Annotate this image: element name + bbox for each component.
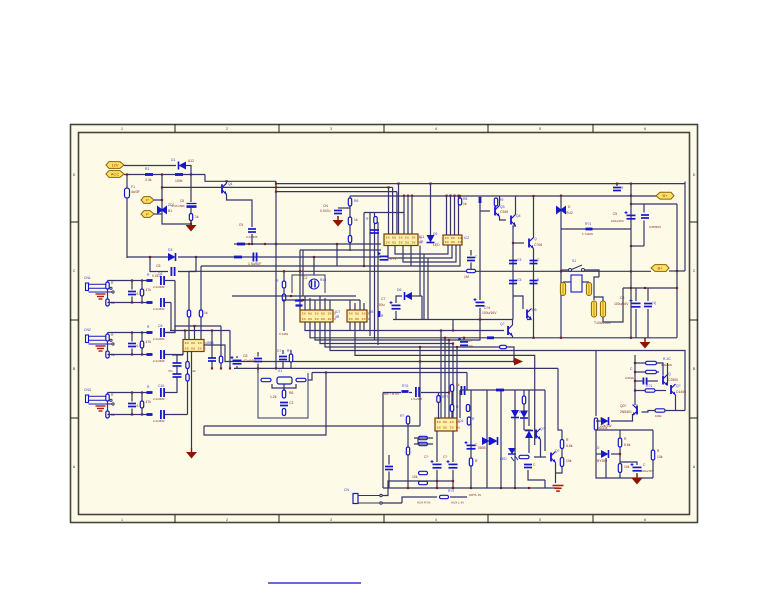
wire x300 drop xyxy=(299,250,301,310)
wire reg h xyxy=(655,390,666,392)
junction xyxy=(325,371,327,373)
wire U5 pin down xyxy=(359,322,361,330)
capacitor C50 xyxy=(643,378,646,385)
wire reg left lower + bottom xyxy=(596,430,653,478)
wire x303 drop xyxy=(302,250,304,296)
diode D10 xyxy=(482,437,490,445)
wire xyxy=(190,208,192,213)
svg-text:5.6k: 5.6k xyxy=(566,444,573,448)
diode D1 xyxy=(179,162,187,170)
svg-text:C5: C5 xyxy=(156,264,160,268)
wire x314 drop xyxy=(313,257,315,275)
resistor R48 xyxy=(419,442,428,445)
wire U1 riser b upper xyxy=(188,271,190,310)
wire C5 branch xyxy=(150,257,168,272)
junction xyxy=(634,389,636,391)
junction xyxy=(211,329,213,331)
wire R16 top xyxy=(283,271,285,281)
diode D19 xyxy=(601,417,609,425)
junction xyxy=(463,337,465,339)
wire U1 pin down a xyxy=(182,352,184,356)
port ACC xyxy=(106,171,124,178)
border zone labels xyxy=(73,127,696,522)
resistor R57 xyxy=(560,458,563,467)
wire y426 b xyxy=(250,425,420,427)
junction xyxy=(616,183,618,185)
junction xyxy=(634,371,636,373)
svg-text:C?: C? xyxy=(277,349,281,353)
wire x230 drop xyxy=(229,331,231,369)
wire xyxy=(451,392,453,404)
resistor ch2b xyxy=(106,351,109,358)
fuse F2 xyxy=(591,301,596,317)
wire bus L5 to port xyxy=(350,195,657,197)
resistor R16b xyxy=(282,294,285,301)
wire riser x449 xyxy=(448,340,450,418)
junction xyxy=(560,337,562,339)
svg-text:Q3: Q3 xyxy=(500,205,505,209)
junction xyxy=(275,367,277,369)
IC U3 xyxy=(384,234,418,246)
wire xyxy=(596,420,601,422)
svg-text:D: D xyxy=(73,173,76,177)
wire xyxy=(141,408,143,415)
ground G1 xyxy=(186,221,197,232)
fuse FB1 xyxy=(560,283,565,296)
svg-text:1.2k: 1.2k xyxy=(270,395,277,399)
wire rail x513 xyxy=(513,226,516,320)
svg-text:5: 5 xyxy=(539,518,541,522)
wire filter out xyxy=(308,373,312,381)
svg-text:2.2u/50F: 2.2u/50F xyxy=(153,359,165,363)
junction xyxy=(456,346,458,348)
svg-text:IC2: IC2 xyxy=(464,236,469,240)
resistor R12 xyxy=(467,269,476,272)
wire riser x445 xyxy=(444,338,446,418)
resistor R42 xyxy=(450,385,453,392)
port ILL xyxy=(141,211,154,218)
svg-text:X1: X1 xyxy=(278,369,282,373)
capacitor C5 xyxy=(171,267,174,276)
wire xyxy=(636,404,638,407)
junction xyxy=(532,195,534,197)
junction xyxy=(452,342,454,344)
wire bus L1 +B xyxy=(205,175,276,182)
wire line j drop xyxy=(466,373,468,391)
wire xyxy=(131,297,133,303)
resistor R50 xyxy=(419,481,428,484)
IC U2 xyxy=(300,310,333,322)
junction xyxy=(257,367,259,369)
junction xyxy=(459,195,461,197)
svg-text:R8: R8 xyxy=(463,197,467,201)
electrolytic capacitor C9 xyxy=(625,211,636,219)
electrolytic capacitor C51 xyxy=(631,463,642,471)
svg-text:LED: LED xyxy=(433,243,440,247)
wire xyxy=(395,311,397,320)
fuse F1 xyxy=(125,188,130,198)
wire rail y497 b xyxy=(450,496,467,498)
wire U3 riser p4 xyxy=(398,184,400,234)
ground G3 main xyxy=(186,448,197,459)
wire x531 up xyxy=(533,196,535,238)
wire loop c xyxy=(403,245,456,262)
wire xyxy=(459,196,461,198)
wire U3 riser p8 xyxy=(411,196,413,234)
svg-text:RU2: RU2 xyxy=(566,211,573,215)
resistor R46 xyxy=(406,447,409,455)
wire xyxy=(620,462,637,465)
resistor R64 xyxy=(594,418,597,430)
IC U6 xyxy=(435,418,457,431)
junction xyxy=(630,245,632,247)
resistor R44 xyxy=(467,417,470,425)
wire xyxy=(141,333,143,342)
wire U1 riser c xyxy=(194,326,196,340)
junction xyxy=(264,243,266,245)
svg-text:CN3: CN3 xyxy=(84,388,91,392)
wire reg a xyxy=(635,362,646,364)
wire xyxy=(556,467,562,474)
wire U4 riser p4 xyxy=(458,196,460,235)
junction xyxy=(419,346,421,348)
wire Q1 emitter xyxy=(227,194,253,227)
svg-text:IN OU IN OU IN O: IN OU IN OU IN O xyxy=(302,317,337,321)
resistor R37 xyxy=(487,336,494,339)
wire xyxy=(107,341,109,351)
junction xyxy=(229,367,231,369)
resistor R9 xyxy=(494,198,497,206)
wire xyxy=(523,404,525,411)
svg-text:2.2u/50F: 2.2u/50F xyxy=(153,419,165,423)
capacitor C46 xyxy=(524,465,532,468)
wire reg d xyxy=(657,371,660,373)
transistor Q8 xyxy=(663,375,668,386)
wire zener branch xyxy=(161,175,163,220)
wire Q6b collector xyxy=(512,320,514,326)
wire U3 riser p2 xyxy=(392,187,394,234)
wire C5 return xyxy=(178,257,196,272)
wire bus y257 xyxy=(178,256,381,258)
junction xyxy=(457,195,459,197)
IC U4 xyxy=(443,235,462,245)
wire U2 pin riser 4 xyxy=(319,296,321,310)
diode D12 xyxy=(511,410,519,418)
wire zener cell bottom xyxy=(162,219,191,224)
svg-text:C8: C8 xyxy=(620,296,624,300)
wire xyxy=(541,456,546,458)
wire xyxy=(388,472,390,489)
wire xyxy=(187,369,189,374)
wire xyxy=(141,348,143,355)
resistor ch3f xyxy=(147,413,153,416)
outer border frame xyxy=(71,125,698,523)
resistor R36 xyxy=(500,345,507,348)
resistor R17 xyxy=(374,217,377,224)
wire C27 drop xyxy=(211,331,213,358)
wire ACC run xyxy=(124,174,205,176)
wire riser x457 xyxy=(456,347,458,418)
wire C24a bottom xyxy=(643,221,645,247)
wire to ch3B xyxy=(187,381,189,415)
capacitor C19 xyxy=(530,281,538,284)
junction xyxy=(630,183,632,185)
wire to D3 xyxy=(127,256,168,258)
wire to F2 xyxy=(594,277,599,300)
resistor R41 xyxy=(437,396,440,403)
svg-text:C?: C? xyxy=(424,455,428,459)
svg-text:2.2u/50F: 2.2u/50F xyxy=(153,337,165,341)
wire xyxy=(619,473,621,479)
wire U2 pin riser 2 xyxy=(309,298,311,310)
capacitor ch3c xyxy=(128,404,136,407)
port DIM xyxy=(141,197,154,204)
capacitor C8 polarized xyxy=(187,204,197,207)
hyperlink underline xyxy=(268,582,361,584)
svg-text:1k: 1k xyxy=(354,218,358,222)
svg-text:Q0?: Q0? xyxy=(620,404,627,408)
wire reg i xyxy=(667,363,669,386)
wire xyxy=(131,281,133,290)
wire U3 riser p3 xyxy=(396,192,398,234)
wire C12 bot xyxy=(470,263,472,272)
resistor R16 xyxy=(282,281,285,288)
wire xyxy=(421,392,449,394)
svg-text:C10: C10 xyxy=(158,384,164,388)
svg-text:0805: 0805 xyxy=(478,446,486,450)
resistor ch2d xyxy=(140,341,143,348)
wire filter loop xyxy=(272,384,296,388)
capacitor C11b xyxy=(370,230,379,233)
wire xyxy=(257,352,259,357)
wire y390 rail xyxy=(460,389,545,391)
wire row2 left xyxy=(108,414,133,416)
resistor R63 xyxy=(645,389,655,392)
svg-text:47k: 47k xyxy=(146,288,152,292)
svg-text:C2: C2 xyxy=(303,276,307,280)
wire xyxy=(652,430,654,450)
svg-text:R-4C: R-4C xyxy=(663,357,671,361)
junction xyxy=(149,256,151,258)
wire bus L3 xyxy=(162,186,393,188)
resistor ch1f xyxy=(147,301,153,304)
resistor ch2e xyxy=(147,331,153,334)
wire bottom y319 xyxy=(393,319,513,321)
wire H2 y330 xyxy=(170,330,230,332)
wire rail y497 a xyxy=(402,497,437,503)
svg-text:P: P xyxy=(146,198,149,203)
resistor R68b xyxy=(651,450,654,460)
svg-text:0.1/2W: 0.1/2W xyxy=(279,332,288,336)
capacitor C12 xyxy=(467,258,475,261)
wire fuse out to y288 xyxy=(603,288,623,322)
svg-text:100u/16V: 100u/16V xyxy=(611,219,624,223)
wire Q1 collector xyxy=(226,181,228,183)
wire U5 pin riser 3 xyxy=(359,300,361,310)
junction xyxy=(184,329,186,331)
resistor ch1d xyxy=(140,289,143,296)
junction xyxy=(275,243,277,245)
port MEMORY xyxy=(656,192,674,199)
svg-text:C?06: C?06 xyxy=(534,243,542,247)
resistor R33 xyxy=(282,390,285,398)
svg-text:R?0: R?0 xyxy=(402,384,408,388)
wire xyxy=(561,449,563,458)
svg-text:1.74k/W: 1.74k/W xyxy=(582,232,593,236)
svg-text:B+: B+ xyxy=(662,193,668,198)
svg-text:ACC: ACC xyxy=(111,172,120,177)
wire bus line a to Q6b xyxy=(305,322,504,331)
resistor ch1b xyxy=(106,299,109,306)
svg-text:IN OU IN O: IN OU IN O xyxy=(185,346,207,350)
diode D3 xyxy=(168,253,176,261)
resistor R65 xyxy=(655,409,665,412)
svg-text:6: 6 xyxy=(644,127,646,131)
wire C24a top xyxy=(643,204,645,213)
svg-text:IN OU IN: IN OU IN xyxy=(445,236,462,240)
svg-text:1: 1 xyxy=(121,127,123,131)
wire reg k xyxy=(642,411,656,413)
svg-text:R1: R1 xyxy=(145,167,149,171)
junction xyxy=(560,195,562,197)
wire out A xyxy=(165,332,176,334)
wire U1 gnd rail xyxy=(191,352,193,449)
junction xyxy=(403,195,405,197)
svg-text:4: 4 xyxy=(435,127,437,131)
wire xyxy=(236,356,238,358)
wire bus y296 xyxy=(232,295,356,297)
capacitor C29 xyxy=(173,374,182,377)
schematic sheet background xyxy=(70,124,698,523)
capacitor C25 xyxy=(254,359,262,362)
wire bus line e xyxy=(325,322,514,362)
resistor R1 xyxy=(145,173,153,176)
wire xyxy=(409,392,412,394)
resistor R45 xyxy=(406,416,409,424)
capacitor C6 xyxy=(161,276,164,285)
wire bottom rail y488 xyxy=(383,487,559,489)
capacitor C11 xyxy=(161,410,164,419)
wire y426 a xyxy=(204,425,250,427)
junction xyxy=(161,199,163,201)
wire to ch3A xyxy=(175,378,177,393)
junction xyxy=(131,301,133,303)
resistor R32 xyxy=(296,378,306,381)
electrolytic capacitor C11 xyxy=(378,252,389,260)
svg-text:100k: 100k xyxy=(655,414,662,418)
wire D5 riser xyxy=(430,184,432,237)
svg-text:2N5401: 2N5401 xyxy=(620,410,632,414)
capacitor C8 xyxy=(161,328,164,337)
wire out B xyxy=(165,302,172,304)
junction xyxy=(407,487,409,489)
wire regulator frame top-right xyxy=(596,351,685,411)
wire Q5t base xyxy=(513,242,524,244)
junction xyxy=(452,329,454,331)
transistor Q5 xyxy=(527,309,532,320)
svg-text:B1: B1 xyxy=(168,209,172,213)
wire xyxy=(479,196,481,199)
wire xyxy=(383,392,401,394)
svg-text:2.2u/50F: 2.2u/50F xyxy=(153,397,165,401)
wire U2 pin riser 6 xyxy=(329,300,331,310)
junction xyxy=(436,487,438,489)
wire xyxy=(596,453,601,455)
svg-text:F1: F1 xyxy=(131,185,135,189)
resistor R34 xyxy=(282,409,285,416)
capacitor C9 xyxy=(161,350,164,359)
wire xyxy=(107,401,109,411)
wire y229 link xyxy=(561,228,631,230)
svg-text:C8: C8 xyxy=(158,324,162,328)
wire relay pin L xyxy=(563,281,571,283)
diode D13 xyxy=(525,431,533,439)
wire C12 top xyxy=(470,250,472,256)
resistor R2 xyxy=(175,173,183,176)
wire row1 left xyxy=(108,280,133,282)
svg-text:1k: 1k xyxy=(456,383,460,387)
svg-text:Q?: Q? xyxy=(500,322,505,326)
diode D11 xyxy=(490,437,498,445)
junction xyxy=(513,360,515,362)
wire xyxy=(176,367,178,374)
resistor R38 xyxy=(186,362,189,369)
svg-text:C?1: C?1 xyxy=(390,257,396,261)
wire y430 in reg xyxy=(596,429,653,431)
svg-text:P: P xyxy=(146,212,149,217)
wire ch1A down xyxy=(174,281,176,333)
wire xyxy=(132,332,147,334)
wire U4 riser p1 xyxy=(446,196,448,235)
wire U3 riser p7 xyxy=(407,196,409,234)
wire x364 drop xyxy=(363,213,365,267)
wire bus L4 xyxy=(276,191,397,193)
junction xyxy=(161,186,163,188)
filter network box xyxy=(258,373,308,418)
wire long riser x370 xyxy=(369,213,371,336)
svg-text:100u/16V: 100u/16V xyxy=(641,469,654,473)
wire drop x428 xyxy=(427,258,429,320)
wire port to rail xyxy=(669,270,685,272)
svg-text:Q?: Q? xyxy=(540,427,545,431)
wire y271 bus xyxy=(189,270,651,272)
svg-text:1.5u/50F: 1.5u/50F xyxy=(248,262,261,266)
junction xyxy=(411,195,413,197)
wire xyxy=(438,403,440,420)
capacitor ch1c xyxy=(128,292,136,295)
capacitor C10 xyxy=(161,388,164,397)
wire U3 riser p6 xyxy=(403,196,405,234)
resistor R35 xyxy=(219,356,222,363)
fuse FB2 xyxy=(586,283,591,296)
svg-text:D: D xyxy=(693,173,696,177)
wire row1 left xyxy=(108,332,133,334)
wire xyxy=(132,280,147,282)
resistor R7b xyxy=(479,197,482,203)
connector CN5 xyxy=(353,494,358,504)
wire D6 row xyxy=(407,295,422,297)
wire bus y250 xyxy=(300,249,381,251)
svg-text:CN1: CN1 xyxy=(84,276,91,280)
capacitor Cb2 xyxy=(253,253,256,262)
wire x453 link xyxy=(452,320,454,331)
resistor ch3a xyxy=(106,394,109,401)
resistor R67b xyxy=(618,464,621,473)
junction xyxy=(195,256,197,258)
resistor R31 xyxy=(261,378,271,381)
wire to S1 xyxy=(561,269,569,271)
wire x677 full xyxy=(676,204,678,338)
